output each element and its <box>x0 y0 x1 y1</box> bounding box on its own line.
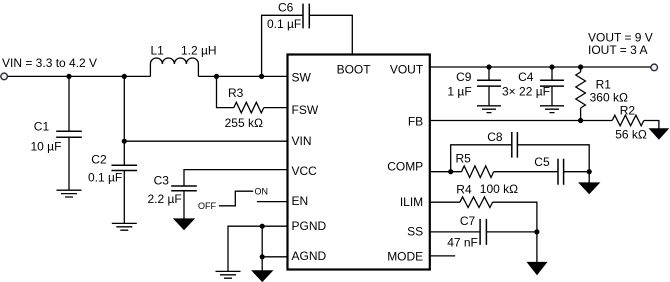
svg-text:3× 22 µF: 3× 22 µF <box>502 84 550 98</box>
svg-text:C8: C8 <box>487 130 503 144</box>
svg-text:SS: SS <box>407 225 423 239</box>
svg-text:VCC: VCC <box>292 164 318 178</box>
svg-text:PGND: PGND <box>292 219 327 233</box>
svg-text:0.1 µF: 0.1 µF <box>267 17 301 31</box>
svg-text:SW: SW <box>292 71 312 85</box>
svg-text:C4: C4 <box>518 70 534 84</box>
svg-text:C5: C5 <box>534 155 550 169</box>
svg-text:C3: C3 <box>154 173 170 187</box>
svg-text:R5: R5 <box>456 152 472 166</box>
svg-text:FSW: FSW <box>292 103 319 117</box>
svg-text:2.2 µF: 2.2 µF <box>148 192 182 206</box>
svg-text:EN: EN <box>292 194 309 208</box>
svg-text:R4: R4 <box>456 182 472 196</box>
svg-text:MODE: MODE <box>387 250 423 264</box>
svg-text:VIN = 3.3 to 4.2 V: VIN = 3.3 to 4.2 V <box>2 56 97 70</box>
svg-text:OFF: OFF <box>198 201 216 211</box>
svg-text:VOUT: VOUT <box>390 62 424 76</box>
svg-text:56 kΩ: 56 kΩ <box>615 128 647 142</box>
svg-text:10 µF: 10 µF <box>31 139 62 153</box>
svg-text:C1: C1 <box>34 120 50 134</box>
svg-text:ON: ON <box>255 186 269 196</box>
svg-text:C6: C6 <box>278 1 294 15</box>
svg-text:360 kΩ: 360 kΩ <box>590 90 628 104</box>
svg-text:C9: C9 <box>456 70 472 84</box>
svg-text:AGND: AGND <box>292 249 327 263</box>
svg-text:255 kΩ: 255 kΩ <box>225 116 263 130</box>
svg-text:ILIM: ILIM <box>400 195 423 209</box>
svg-text:100 kΩ: 100 kΩ <box>480 182 518 196</box>
svg-text:1.2 µH: 1.2 µH <box>181 44 217 58</box>
svg-text:L1: L1 <box>151 44 165 58</box>
svg-text:R3: R3 <box>228 86 244 100</box>
svg-text:C2: C2 <box>91 152 107 166</box>
svg-text:FB: FB <box>408 115 423 129</box>
svg-text:VIN: VIN <box>292 134 312 148</box>
svg-text:0.1 µF: 0.1 µF <box>88 170 122 184</box>
svg-text:1 µF: 1 µF <box>447 84 471 98</box>
svg-text:R2: R2 <box>620 104 636 118</box>
svg-text:IOUT = 3 A: IOUT = 3 A <box>588 43 647 57</box>
svg-text:BOOT: BOOT <box>337 62 372 76</box>
svg-text:47 nF: 47 nF <box>447 236 478 250</box>
svg-text:COMP: COMP <box>387 160 423 174</box>
svg-text:C7: C7 <box>460 214 476 228</box>
